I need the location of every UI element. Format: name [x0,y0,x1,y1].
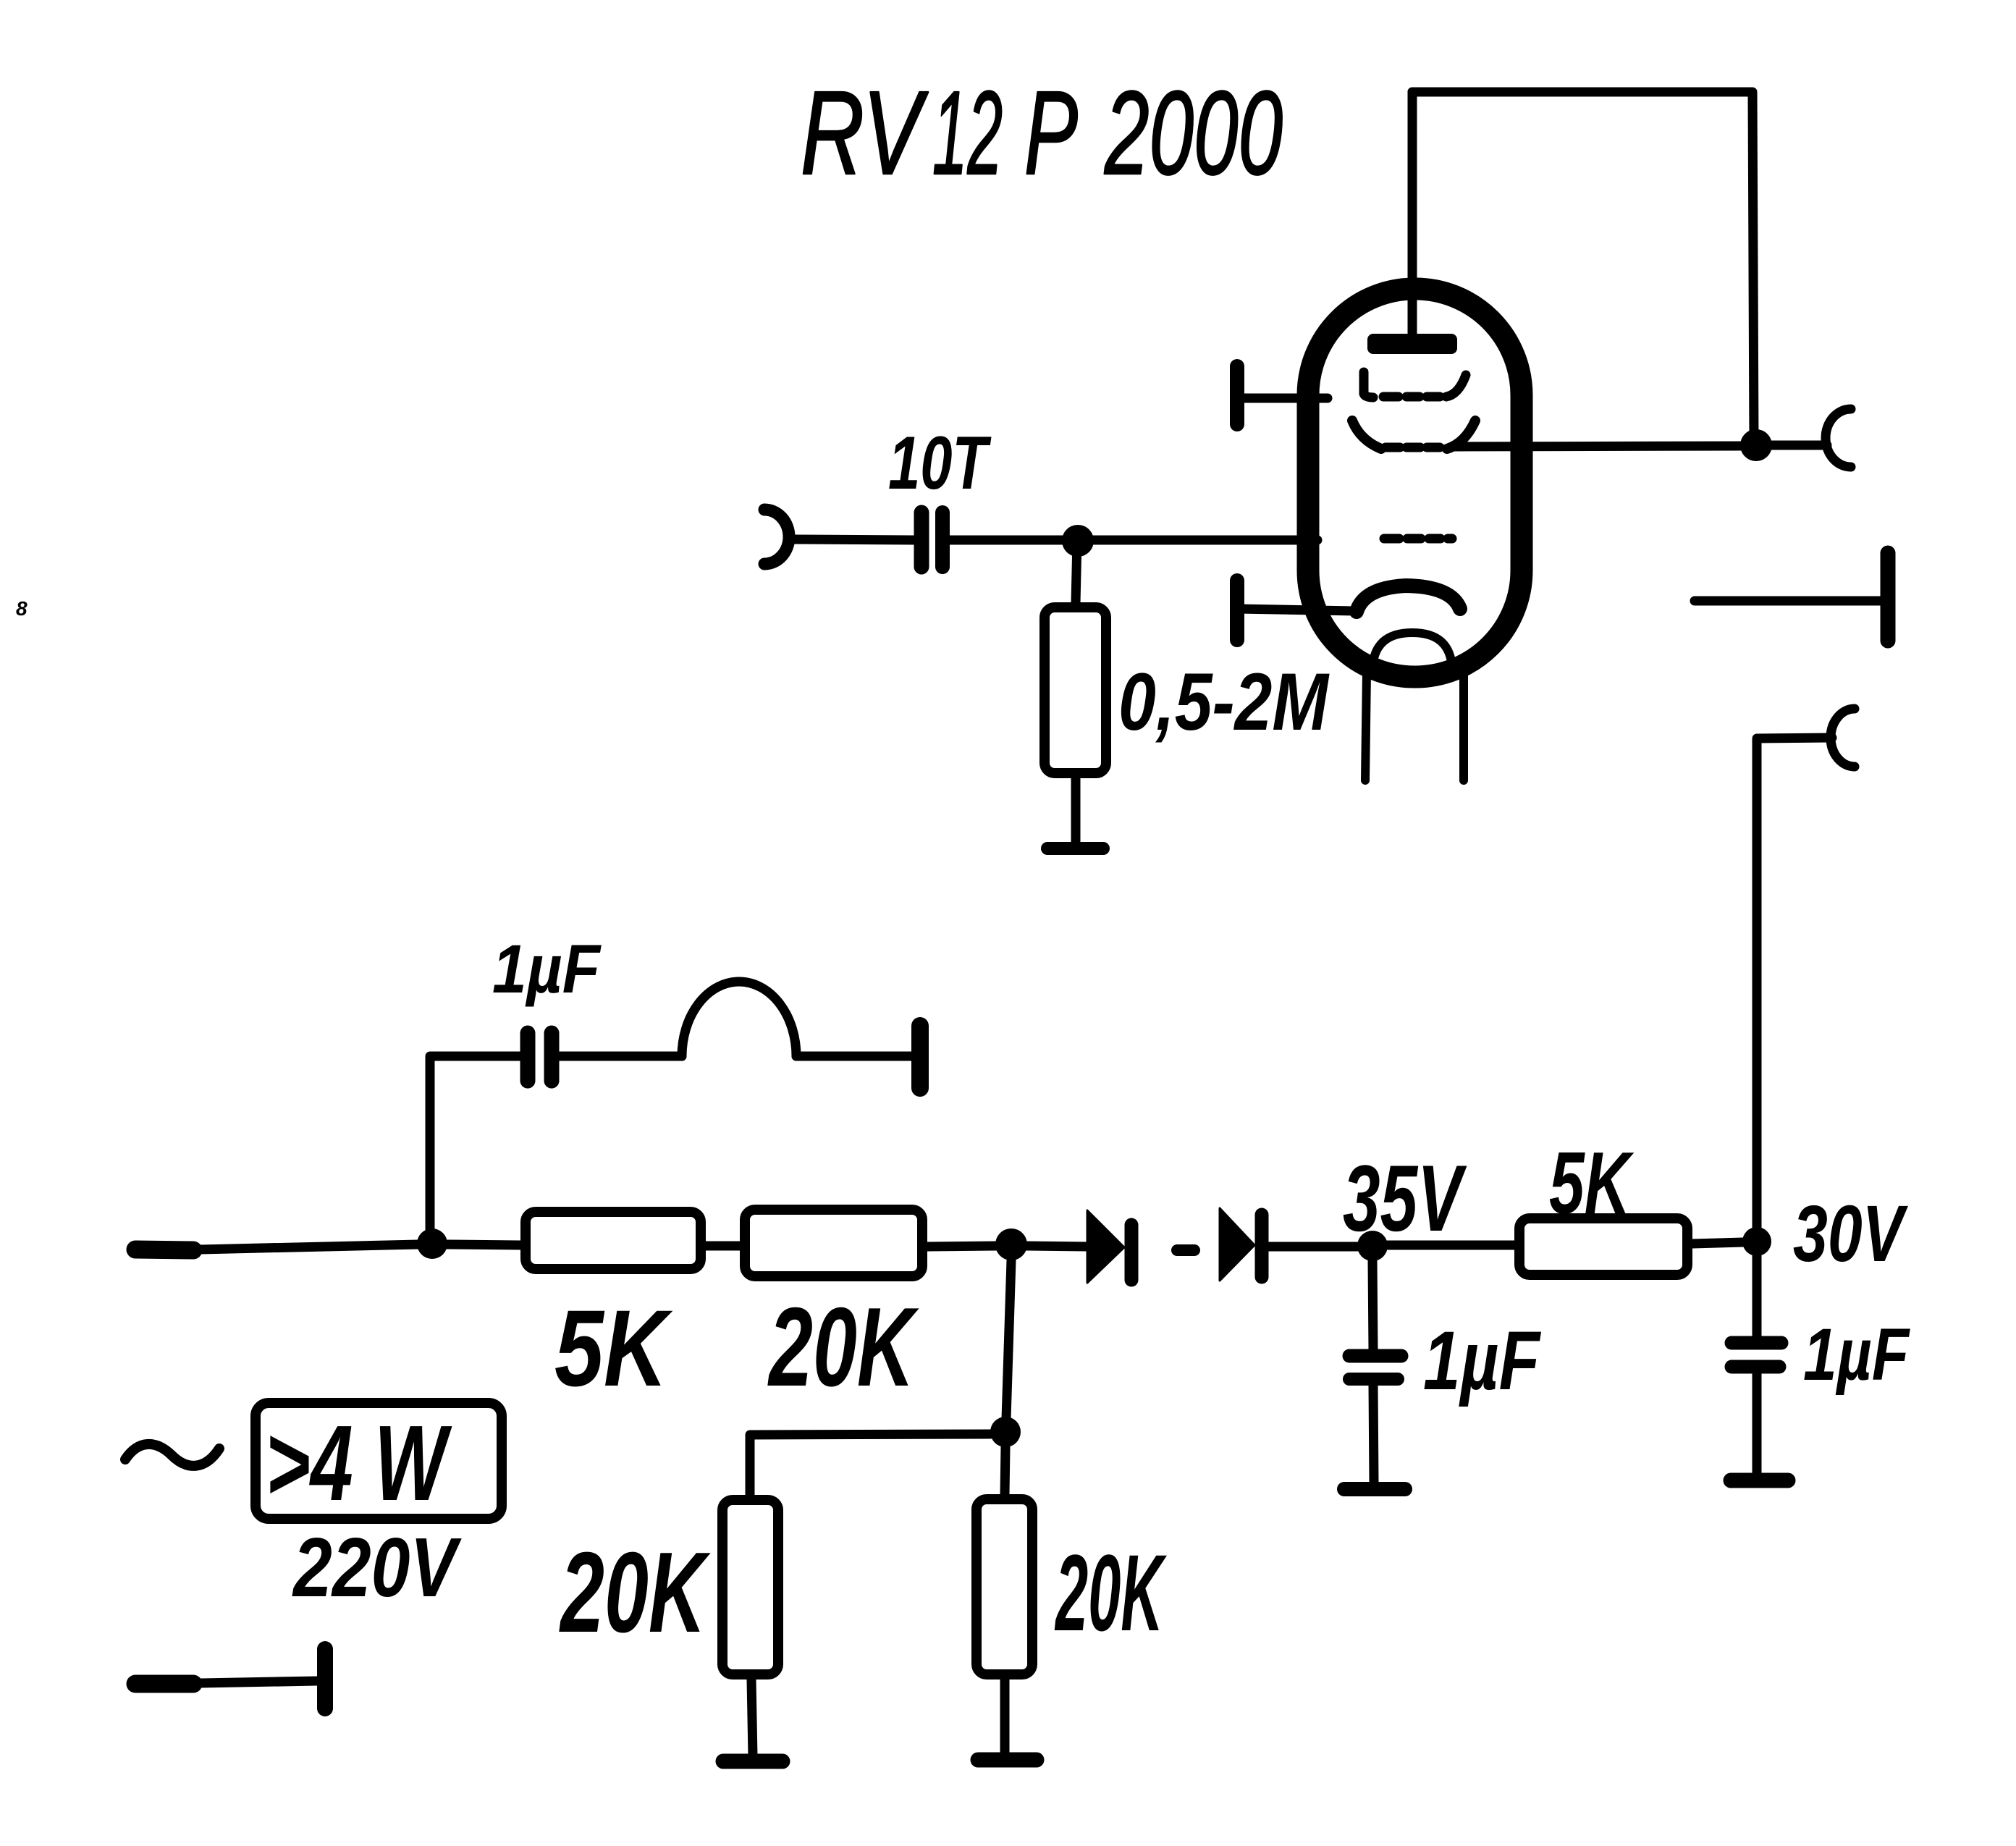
svg-text:1µF: 1µF [1423,1315,1541,1407]
capacitor C3 bottom plate [1349,1373,1398,1386]
capacitor C1 10T right plate [935,513,950,567]
grid g2 (screen) wings and dashes [1352,421,1381,449]
svg-text:20K: 20K [559,1529,711,1656]
svg-text:220V: 220V [292,1520,462,1614]
wire hop to T4 [796,1052,911,1061]
junction dot anode/g2 node [1740,429,1772,461]
svg-text:0,5-2M: 0,5-2M [1118,657,1330,747]
wire junction B left and down to R5 [750,1434,990,1495]
wire R6 to ground [1000,1679,1010,1754]
anode lead [1408,92,1417,335]
wire 35V down to C3 [1372,1260,1373,1351]
wire junction A to D1 [1026,1246,1087,1247]
resistor R3 20K [745,1210,922,1276]
svg-text:10T: 10T [888,421,992,505]
output terminal plug 1 [1826,409,1851,467]
diode D2 triangle [1220,1208,1254,1281]
wire C2 to hop [560,1052,682,1061]
top wire anode to right junction [1412,92,1754,446]
capacitor C2 1uF left plate [520,1033,536,1081]
heater lead left [1365,672,1367,780]
grid g3 (suppressor) stub and dashes [1364,372,1373,397]
wire T2 to cathode [1237,609,1355,611]
wire junction to output plug [1771,441,1827,450]
capacitor C1 10T left plate [914,513,929,567]
bottom-left terminal stub [135,1675,193,1693]
junction dot grid node [1062,525,1094,557]
svg-text:P: P [1024,67,1078,199]
AC source tilde [125,1444,219,1466]
tube V1 envelope [1308,289,1522,677]
resistor R2 5K [526,1212,701,1269]
node 30V dot [1742,1227,1771,1256]
wire D2 to node 35V [1269,1242,1358,1252]
svg-text:>4 W: >4 W [266,1404,452,1523]
svg-text:1µF: 1µF [1803,1313,1910,1396]
svg-text:8: 8 [16,597,28,620]
svg-text:20K: 20K [767,1284,919,1409]
resistor R6 20K [977,1499,1032,1674]
wire C3 to ground [1373,1386,1374,1483]
wire R2 to R3 [706,1242,740,1251]
terminal T3 wire [1695,597,1880,606]
wire R1 to ground [1071,778,1081,846]
resistor R1 0.5-2M [1045,607,1106,773]
terminal T5 bar [317,1649,333,1708]
svg-text:35V: 35V [1343,1145,1467,1251]
wire T1 to g3 [1237,394,1328,403]
ground bar below R6 [978,1753,1037,1768]
wire R3 to junction A [927,1246,997,1247]
inter-diode dash [1177,1244,1194,1256]
wire g2 to right junction [1452,446,1741,447]
ground bar below C3 [1344,1482,1405,1496]
title RV12P2000 [801,67,1283,199]
capacitor C2 1uF right plate [544,1033,560,1081]
wire R4 to node 30V [1692,1242,1743,1244]
terminal T2 (cathode) bar [1230,581,1244,640]
svg-text:RV: RV [801,67,929,199]
svg-text:5K: 5K [554,1287,673,1409]
svg-text:2000: 2000 [1104,67,1283,199]
wire stub to T5 [201,1681,317,1683]
ground bar below C4 [1731,1473,1788,1488]
wire plug2 corner down to 30V node [1757,738,1832,1231]
wire C1 to grid junction [950,536,1317,545]
terminal T3 bar [1881,553,1896,641]
capacitor C4 bottom plate [1732,1360,1779,1374]
capacitor C4 top plate [1732,1336,1781,1350]
heater dome [1372,633,1452,669]
cathode [1357,586,1460,612]
junction A dot [995,1228,1027,1260]
lamp box [256,1403,502,1519]
wire junction to R2 [447,1244,520,1245]
terminal T1 (g3) bar [1230,366,1244,424]
svg-text:1µF: 1µF [492,931,602,1008]
input terminal plug [764,510,789,564]
capacitor C3 top plate [1349,1349,1401,1363]
resistor R5 20K [722,1500,778,1674]
svg-text:5K: 5K [1549,1134,1635,1232]
wire junction up to C2 [430,1056,520,1244]
wire 35V to R4 [1388,1241,1514,1250]
wire junction down to R1 [1076,541,1077,603]
diode D1 bar [1125,1225,1139,1280]
AC line left stub [135,1249,193,1250]
svg-text:20K: 20K [1054,1532,1167,1653]
junction dot C2 branch [417,1228,447,1259]
wire junction B down to R6 [1005,1447,1005,1494]
wire stub to junction [201,1244,418,1249]
diode D2 bar [1255,1215,1269,1277]
grid g1 (control) dashes [1384,534,1399,544]
wire 30V down to C4 [1753,1256,1762,1337]
svg-text:30V: 30V [1793,1189,1909,1278]
ground bar below R5 [723,1754,783,1769]
output terminal plug 2 [1831,709,1855,767]
wire R5 to ground [751,1679,753,1756]
ground bar below R1 [1047,842,1103,855]
diode D1 triangle [1087,1210,1124,1283]
svg-text:12: 12 [932,67,1003,199]
resistor R4 5K [1519,1218,1687,1275]
heater lead right [1459,672,1468,780]
crossover hop [682,982,796,1056]
wire junction A down to junction B [1006,1260,1011,1419]
node 35V dot [1357,1231,1388,1261]
wire input to C1 [792,539,914,540]
terminal T4 bar [911,1026,929,1088]
anode plate [1367,334,1457,354]
wire C4 to ground [1753,1374,1762,1474]
junction B dot [990,1417,1021,1447]
